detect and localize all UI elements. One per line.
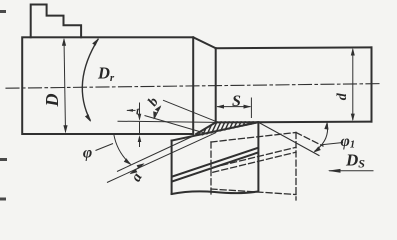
dashed die (next position after feed S): left edge — [210, 142, 212, 195]
die exit cone extension line (for angle phi1) — [259, 122, 320, 155]
S dim arrow left — [216, 105, 224, 109]
S extension tick — [250, 98, 252, 119]
bottom cone surface of workpiece — [196, 122, 216, 134]
phi arc arrowhead — [124, 158, 132, 165]
arrowheads — [62, 38, 355, 175]
hatched deformation zone — [192, 113, 269, 141]
small cylinder right edge — [371, 47, 373, 121]
dimension S line — [217, 106, 251, 108]
b dimension arrow line — [155, 107, 161, 119]
die (solid, current position): left edge — [171, 141, 173, 194]
phi1 arc arrow bottom — [313, 146, 321, 152]
svg-text:φ: φ — [83, 145, 92, 162]
dashed die band upper — [213, 147, 296, 167]
D_r arc arrow top — [92, 38, 99, 46]
svg-text:D: D — [42, 94, 62, 108]
t dimension middle shaft — [139, 122, 141, 134]
phi1 leader — [322, 143, 344, 145]
t upper arrow (down) — [138, 114, 142, 121]
a extension line upper — [117, 135, 197, 172]
die entry face (working cone) — [172, 122, 259, 140]
thin extension of small-cylinder bottom line (reference for t and b) — [118, 121, 216, 122]
phi1 angle arc — [315, 123, 328, 152]
dimension d line — [352, 50, 354, 120]
large cylinder body D — [22, 37, 193, 134]
a extension line lower — [107, 133, 216, 183]
D dim arrow down — [63, 125, 67, 133]
die calibrating band (double line) upper — [173, 148, 259, 177]
a arrow upper — [137, 163, 145, 169]
dashed die band lower — [213, 152, 296, 172]
die right edge — [257, 122, 259, 191]
S dim arrow right — [244, 105, 252, 109]
phi leader — [96, 144, 114, 151]
d dim arrow up — [351, 48, 355, 56]
stepped profile on top of large cylinder — [31, 5, 81, 38]
b arrow lower — [153, 111, 157, 119]
t lower arrow (up) — [138, 135, 142, 142]
D_S direction arrow shaft — [329, 170, 374, 172]
D_S arrowhead — [328, 169, 341, 173]
b extension line lower — [145, 116, 205, 134]
svg-text:φ1: φ1 — [341, 133, 356, 151]
scan artifact marks on left edge — [0, 12, 7, 200]
b arrow upper — [155, 105, 162, 111]
dashed die bottom edge — [211, 189, 296, 195]
b extension line upper — [163, 100, 215, 121]
t dimension upper shaft — [139, 103, 141, 120]
centerline (axis) — [6, 84, 382, 89]
small cylinder bottom edge — [216, 121, 372, 124]
dimension D line with arrows — [64, 39, 66, 132]
a dimension arrow line — [131, 164, 144, 174]
phi angle arc — [114, 134, 131, 164]
svg-text:DS: DS — [345, 151, 365, 171]
D dim arrow up — [62, 38, 66, 46]
t leader arrowhead — [126, 109, 133, 112]
dashed die entry face — [211, 133, 296, 143]
t dimension lower shaft — [139, 137, 141, 147]
a arrow lower — [130, 169, 138, 175]
svg-text:Dr: Dr — [97, 64, 115, 85]
svg-text:S: S — [232, 93, 241, 110]
D_r arc arrow bottom — [85, 114, 91, 122]
t label leader arrow — [127, 109, 136, 111]
dashed die right edge — [295, 133, 297, 201]
phi1 arc arrow top — [324, 122, 328, 130]
d dim arrow down — [351, 114, 355, 122]
dashed die exit face — [296, 133, 323, 147]
shoulder chamfer between D and d — [193, 37, 216, 48]
svg-text:d: d — [335, 92, 350, 100]
roll surface arc D_r — [82, 39, 98, 121]
die calibrating band (double line) lower — [173, 153, 259, 182]
small cylinder left edge — [215, 48, 217, 122]
svg-text:a: a — [128, 171, 146, 185]
small cylinder top edge — [216, 46, 372, 49]
die bottom break line — [172, 191, 258, 194]
